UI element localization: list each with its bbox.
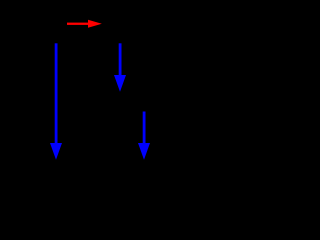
- red arrow (horizontal, pointing right): [67, 20, 102, 28]
- blue arrow top-right (vertical, pointing down): [114, 43, 126, 92]
- blue arrow left (vertical, pointing down): [50, 43, 62, 160]
- blue arrow bottom-right (vertical, pointing down): [138, 112, 150, 160]
